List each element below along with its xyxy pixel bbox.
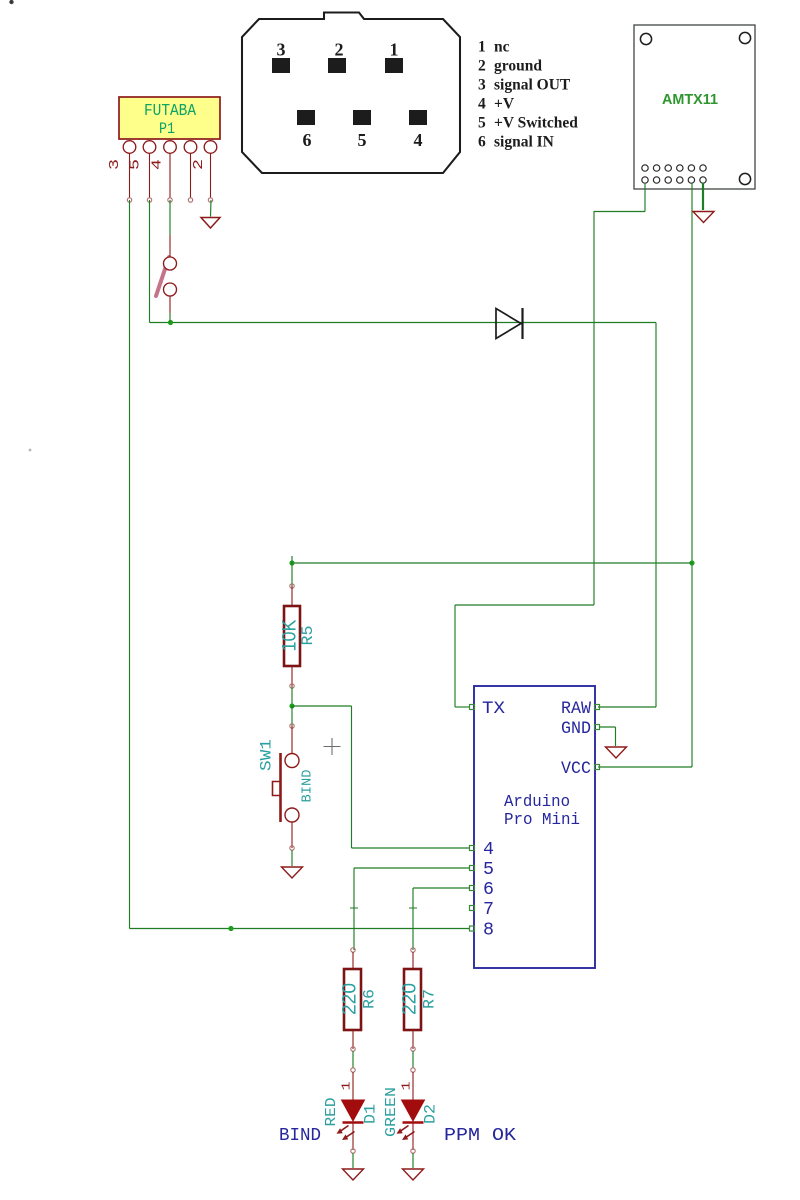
P1 pin circle 1 <box>123 141 136 154</box>
AMTX11 header pin row1 col5 <box>688 165 694 171</box>
AMTX11 header pin row1 col3 <box>665 165 671 171</box>
AMTX11 header pin row2 col6 <box>700 177 706 183</box>
D1 cathode lead <box>352 1122 354 1150</box>
wire AMTX pin1 down <box>644 183 646 212</box>
P1 pin 4 lead <box>190 154 192 199</box>
switch SW1 actuator bar <box>279 753 282 822</box>
DIN socket pin 5 pad <box>353 110 371 125</box>
svg-text:1: 1 <box>390 40 399 60</box>
ground at D1 <box>343 1169 364 1180</box>
AMTX11 mounting hole bottom-right <box>739 173 750 184</box>
svg-text:4: 4 <box>478 96 486 113</box>
R6 pin 2 end <box>351 1047 355 1051</box>
P1 pin 2 lead <box>149 154 151 199</box>
junction at R5 top <box>289 560 294 565</box>
svg-text:RAW: RAW <box>561 699 591 719</box>
svg-text:1: 1 <box>340 1082 354 1091</box>
Arduino pin square 7 <box>470 906 475 911</box>
svg-text:5: 5 <box>483 860 494 880</box>
switch toggle lever <box>156 257 169 296</box>
diode <box>496 309 521 339</box>
wire pin6 to R7 <box>412 888 414 950</box>
R6 pin 2 lead <box>352 1030 354 1049</box>
Arduino pin square 8 <box>470 926 475 931</box>
wire vertical net TX <box>593 211 595 605</box>
AMTX11 header pin row2 col1 <box>642 177 648 183</box>
switch bottom contact <box>164 283 177 296</box>
diode cathode bar <box>521 308 523 339</box>
Arduino pin square TX <box>470 705 475 710</box>
svg-text:GREEN: GREEN <box>383 1087 400 1137</box>
svg-text:3: 3 <box>277 40 286 60</box>
wire FUTABA pin4 to switch <box>169 200 171 235</box>
svg-text:VCC: VCC <box>561 759 591 779</box>
wire into RAW pin <box>598 706 656 708</box>
ground at AMTX11 <box>693 212 714 223</box>
P1 pin circle 3 <box>164 141 177 154</box>
Arduino pin square GND <box>595 725 600 730</box>
wire into TX pin <box>455 706 470 708</box>
wire AMTX pin6 to ground <box>702 183 704 210</box>
R7 pin 2 lead <box>412 1030 414 1049</box>
svg-text:signal OUT: signal OUT <box>494 77 571 94</box>
svg-text:6: 6 <box>478 134 486 151</box>
svg-text:4: 4 <box>483 840 494 860</box>
junction VCC net <box>689 560 694 565</box>
AMTX11 header pin row1 col4 <box>677 165 683 171</box>
svg-text:RED: RED <box>323 1098 340 1127</box>
module AMTX11 body <box>634 25 755 189</box>
P1 pin 3 lead <box>169 154 171 199</box>
svg-text:FUTABA: FUTABA <box>144 102 197 121</box>
svg-text:AMTX11: AMTX11 <box>662 92 718 108</box>
Arduino pin square VCC <box>595 765 600 770</box>
switch top contact <box>164 257 177 270</box>
R6 pin 1 lead <box>352 952 354 969</box>
P1 pin 3 end <box>168 198 172 202</box>
wire pin5 to R6 <box>353 868 355 950</box>
AMTX11 header pin row2 col2 <box>653 177 659 183</box>
D2 pin 2 end <box>411 1149 415 1153</box>
SW1 pin 1 end <box>290 724 294 728</box>
wire R5 to SW1 <box>291 686 293 706</box>
svg-text:220: 220 <box>340 983 361 1015</box>
svg-text:nc: nc <box>494 39 510 56</box>
AMTX11 header pin row2 col3 <box>665 177 671 183</box>
svg-text:2: 2 <box>192 159 207 170</box>
wire +V rail horizontal <box>292 562 692 564</box>
svg-text:P1: P1 <box>159 120 175 138</box>
wire FUTABA pin2 to ground <box>210 200 213 217</box>
svg-text:+V: +V <box>494 96 515 113</box>
ground at D2 <box>403 1169 424 1180</box>
switch bottom pin lead <box>169 296 171 313</box>
svg-text:BIND: BIND <box>300 770 316 803</box>
R7 pin 2 end <box>411 1047 415 1051</box>
wire D2 to ground <box>412 1153 414 1168</box>
wire into VCC pin <box>598 766 692 768</box>
switch SW1 bottom contact <box>285 808 299 822</box>
wire R7 to D2 <box>412 1051 414 1068</box>
svg-text:4: 4 <box>414 130 423 150</box>
svg-text:D2: D2 <box>422 1104 440 1124</box>
svg-text:2: 2 <box>478 58 486 75</box>
svg-text:1: 1 <box>478 39 486 56</box>
led D2 <box>402 1100 425 1121</box>
wire AMTX to TX horizontal <box>594 211 645 213</box>
wire GND pin down <box>615 727 617 746</box>
AMTX11 header pin row1 col1 <box>642 165 648 171</box>
svg-text:7: 7 <box>483 900 494 920</box>
svg-text:3: 3 <box>478 77 486 94</box>
R7 pin 1 end <box>411 948 415 952</box>
led D1 cathode bar <box>343 1121 364 1124</box>
svg-text:10K: 10K <box>280 619 301 651</box>
wire into pin 6 <box>413 887 470 889</box>
P1 pin 1 lead <box>129 154 131 199</box>
SW1 pin 1 lead <box>291 726 293 754</box>
wire R5 top stub <box>291 556 293 586</box>
svg-text:8: 8 <box>483 921 494 941</box>
svg-text:R5: R5 <box>299 626 317 646</box>
AMTX11 mounting hole top-left <box>640 33 651 44</box>
AMTX11 header pin row2 col4 <box>677 177 683 183</box>
DIN socket pin 3 pad <box>272 58 290 73</box>
D1 pin 1 end <box>351 1068 355 1072</box>
R5 pin 1 lead <box>291 586 293 606</box>
wire bind net vertical <box>351 706 353 848</box>
svg-text:2: 2 <box>335 40 344 60</box>
ground at SW1 <box>282 867 303 878</box>
switch SW1 button bump <box>273 782 280 796</box>
svg-text:D1: D1 <box>362 1104 380 1124</box>
Arduino pin square 4 <box>470 846 475 851</box>
D2 anode lead <box>412 1072 414 1100</box>
R5 pin 2 lead <box>291 666 293 686</box>
svg-text:Pro Mini: Pro Mini <box>504 811 580 830</box>
svg-text:1: 1 <box>400 1082 414 1091</box>
svg-text:6: 6 <box>303 130 312 150</box>
wire main +V switched horizontal <box>150 322 657 324</box>
stray dot left margin <box>29 449 32 452</box>
wire switch to junction <box>169 313 171 323</box>
P1 pin circle 2 <box>143 141 156 154</box>
ground at Arduino GND <box>606 747 627 758</box>
R5 pin 2 end <box>290 684 294 688</box>
wire into pin 4 <box>352 847 471 849</box>
D1 anode lead <box>352 1072 354 1100</box>
Arduino pin square RAW <box>595 705 600 710</box>
svg-text:Arduino: Arduino <box>504 793 570 812</box>
P1 pin 5 end <box>208 198 212 202</box>
wire bind net horizontal <box>292 705 352 707</box>
P1 pin circle 5 <box>204 141 217 154</box>
P1 pin 2 end <box>147 198 151 202</box>
svg-text:ground: ground <box>494 58 542 75</box>
wire AMTX pin5 to VCC vertical <box>691 183 693 767</box>
svg-text:5: 5 <box>358 130 367 150</box>
D2 cathode lead <box>412 1122 414 1150</box>
D1 pin 2 end <box>351 1149 355 1153</box>
AMTX11 mounting hole top-right <box>739 32 750 43</box>
svg-text:R6: R6 <box>361 989 379 1009</box>
svg-text:GND: GND <box>561 719 591 739</box>
led D2 cathode bar <box>403 1121 424 1124</box>
R6 pin 1 end <box>351 948 355 952</box>
svg-text:TX: TX <box>482 699 506 719</box>
svg-text:6: 6 <box>483 880 494 900</box>
AMTX11 header pin row2 col5 <box>688 177 694 183</box>
wire stub tick R6 net <box>350 907 358 909</box>
wire stub tick R7 net <box>409 907 417 909</box>
svg-text:PPM OK: PPM OK <box>444 1126 516 1146</box>
D2 pin 1 end <box>411 1068 415 1072</box>
ic U1 Arduino Pro Mini body <box>474 686 595 968</box>
wire GND pin out <box>599 726 616 728</box>
led D1 <box>342 1100 365 1121</box>
svg-text:+V Switched: +V Switched <box>494 115 578 132</box>
svg-text:5: 5 <box>129 159 144 170</box>
R7 pin 1 lead <box>412 952 414 969</box>
wire SW1 top stub <box>291 706 293 726</box>
AMTX11 header pin row1 col2 <box>653 165 659 171</box>
svg-text:SW1: SW1 <box>258 739 276 771</box>
svg-text:220: 220 <box>400 983 421 1015</box>
wire FUTABA pin3 long vertical <box>129 200 131 929</box>
resistor R7 <box>404 969 421 1030</box>
trainer DIN socket outline <box>242 13 460 174</box>
resistor R6 <box>344 969 361 1030</box>
junction at switch output <box>168 320 173 325</box>
led D2 emission arrows <box>398 1126 415 1140</box>
svg-text:5: 5 <box>478 115 486 132</box>
wire horizontal net TX <box>455 604 594 606</box>
led D1 emission arrows <box>338 1126 355 1140</box>
svg-text:signal IN: signal IN <box>494 134 554 151</box>
wire diode net to RAW vertical <box>655 323 657 708</box>
junction at SW1 top <box>289 703 294 708</box>
P1 pin 5 lead <box>210 154 212 199</box>
switch SW1 top contact <box>285 754 299 768</box>
cursor cross mark <box>324 738 341 755</box>
AMTX11 header pin row1 col6 <box>700 165 706 171</box>
svg-text:3: 3 <box>108 159 123 170</box>
DIN socket pin 4 pad <box>409 110 427 125</box>
svg-text:BIND: BIND <box>279 1126 321 1146</box>
P1 pin 4 end <box>188 198 192 202</box>
Arduino pin square 6 <box>470 886 475 891</box>
wire vertical to TX pin <box>454 605 456 707</box>
Arduino pin square 5 <box>470 866 475 871</box>
stray dot top-left <box>9 0 13 4</box>
P1 pin 1 end <box>127 198 131 202</box>
SW1 pin 2 end <box>290 846 294 850</box>
wire D1 to ground <box>352 1153 354 1168</box>
resistor R5 <box>284 606 300 666</box>
DIN socket pin 2 pad <box>328 58 346 73</box>
P1 pin circle 4 <box>184 141 197 154</box>
junction on pin8 net <box>228 926 233 931</box>
wire R6 to D1 <box>352 1051 354 1068</box>
R5 pin 1 end <box>290 584 294 588</box>
wire net signal OUT to pin 8 <box>130 928 471 930</box>
wire SW1 to ground <box>291 850 293 866</box>
SW1 pin 2 lead <box>291 822 293 848</box>
svg-text:R7: R7 <box>421 989 439 1009</box>
DIN socket pin 6 pad <box>297 110 315 125</box>
wire FUTABA pin5 vertical <box>149 200 151 323</box>
switch top pin lead <box>169 235 171 257</box>
wire into pin 5 <box>354 867 470 869</box>
svg-text:4: 4 <box>151 159 166 170</box>
ground at FUTABA pin 2 <box>201 218 220 229</box>
connector P1 FUTABA body <box>119 97 220 139</box>
DIN socket pin 1 pad <box>385 58 403 73</box>
